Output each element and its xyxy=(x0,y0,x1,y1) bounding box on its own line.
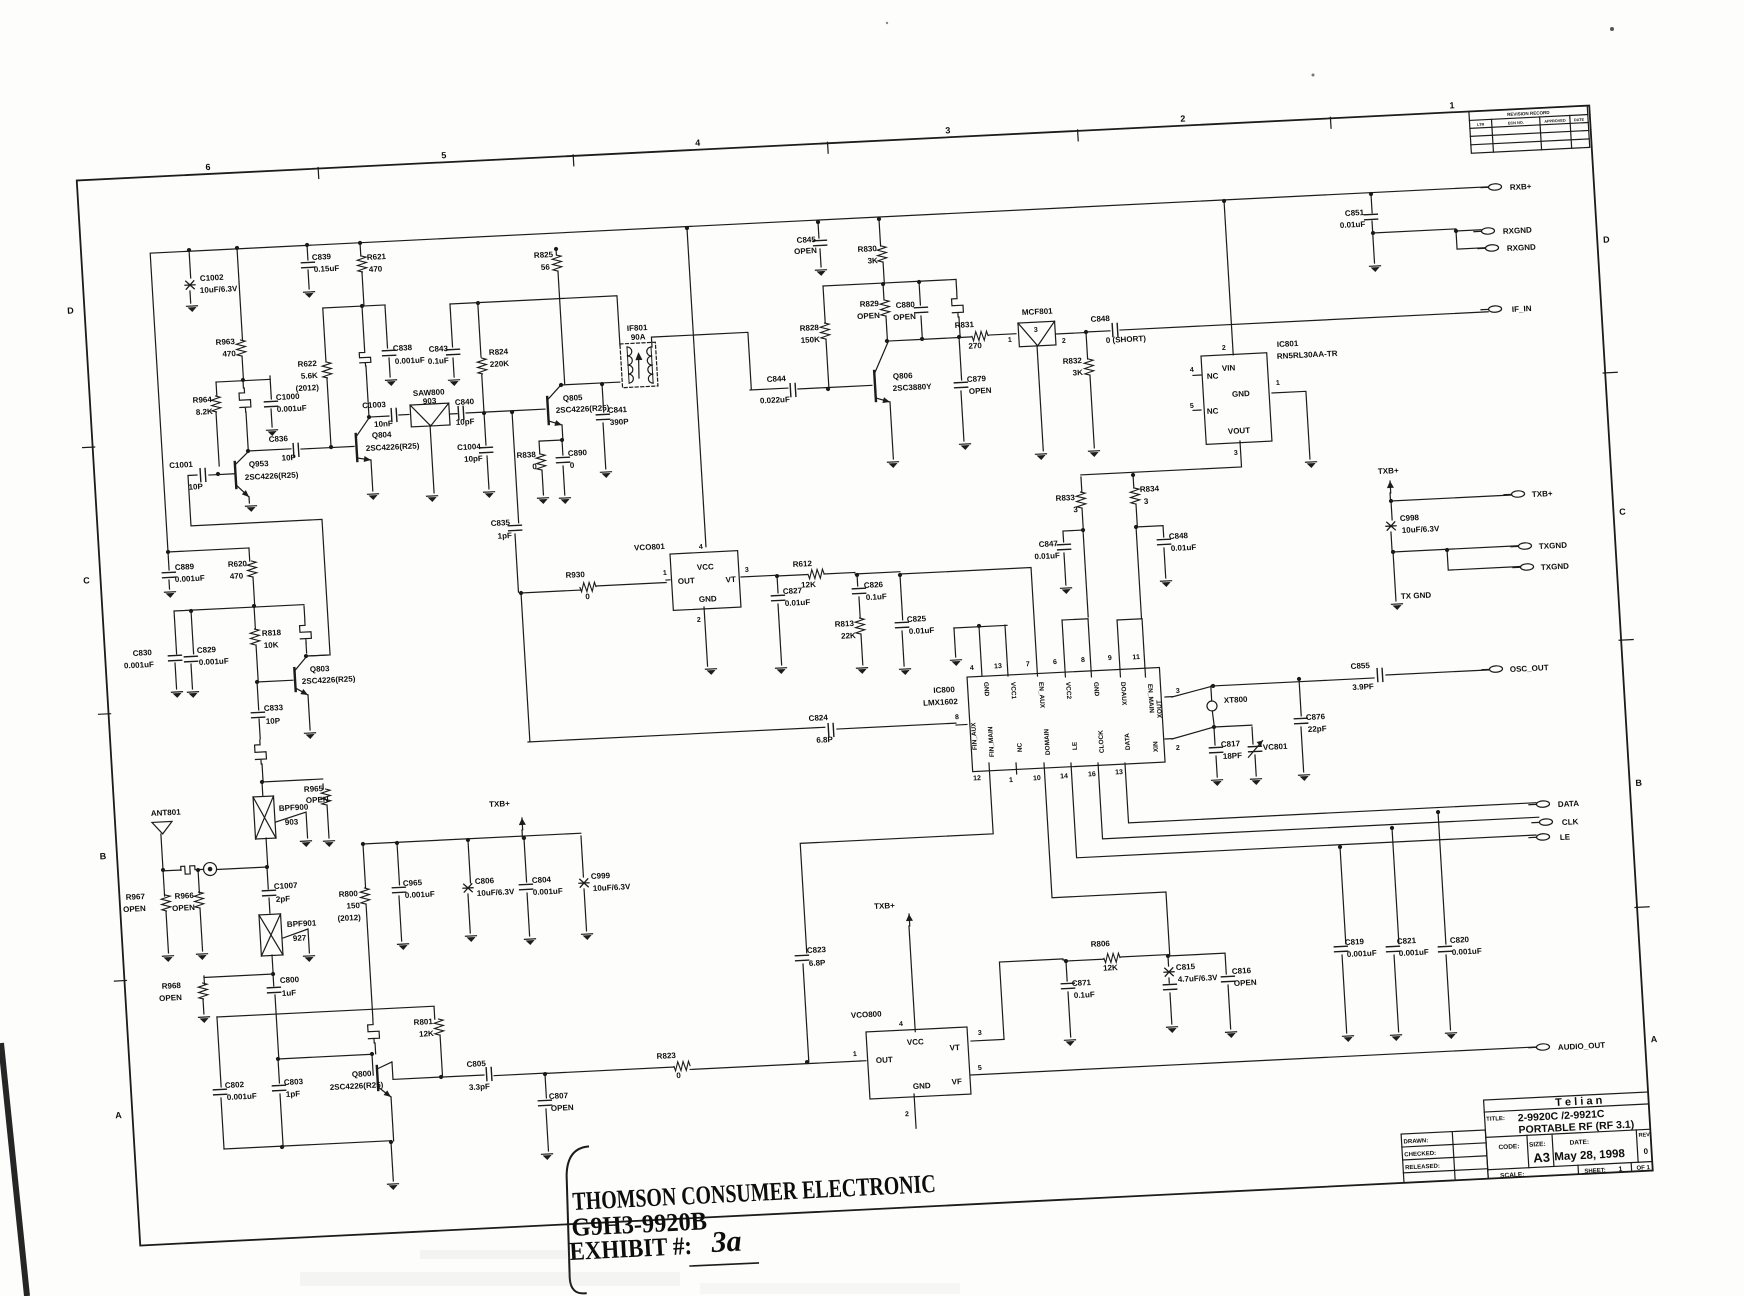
wire Q803 collector node xyxy=(304,654,308,658)
wire LE pin14 to LE terminal xyxy=(1071,740,1536,858)
wire IC801 GND pin to ground xyxy=(1272,391,1310,460)
wire rail to R620 C889 xyxy=(166,550,170,554)
svg-text:2: 2 xyxy=(905,1111,909,1118)
resistor R833 3 xyxy=(1080,477,1083,492)
wire H1 feedback top xyxy=(217,1006,434,1017)
svg-text:C851: C851 xyxy=(1345,208,1365,218)
transistor Q805 2SC4226(R25) xyxy=(547,397,549,424)
svg-text:5.6K: 5.6K xyxy=(301,371,319,381)
svg-text:R838: R838 xyxy=(516,450,536,460)
wire BPF901 to R968 C800 xyxy=(272,955,273,974)
svg-text:Q805: Q805 xyxy=(563,393,584,403)
svg-text:C816: C816 xyxy=(1232,966,1252,976)
svg-text:0.01uF: 0.01uF xyxy=(1340,220,1366,230)
wire RXGND second branch xyxy=(1456,230,1485,249)
wire XOUT to OSC_OUT xyxy=(1172,678,1375,697)
svg-text:OPEN: OPEN xyxy=(1234,978,1257,988)
svg-text:DRAWN:: DRAWN: xyxy=(1403,1138,1428,1145)
svg-text:TXB+: TXB+ xyxy=(489,799,511,809)
capacitor C1004 10pF xyxy=(484,413,486,445)
svg-text:B: B xyxy=(99,851,107,861)
connector AUDIO_OUT xyxy=(1536,1043,1549,1050)
connector CLK xyxy=(1539,819,1552,826)
svg-text:5: 5 xyxy=(441,150,447,160)
svg-text:470: 470 xyxy=(369,264,383,274)
svg-text:C889: C889 xyxy=(175,562,195,572)
svg-text:3a: 3a xyxy=(709,1225,742,1259)
svg-text:10uF/6.3V: 10uF/6.3V xyxy=(200,284,239,295)
svg-text:0.001uF: 0.001uF xyxy=(175,574,206,584)
wire R612 to EN_AUX xyxy=(900,568,1037,683)
svg-text:C803: C803 xyxy=(284,1077,304,1087)
filter BPF900 903 xyxy=(261,782,264,796)
wire Q806 collector node xyxy=(885,339,889,343)
resistor R831 270 xyxy=(972,331,989,341)
svg-text:OPEN: OPEN xyxy=(969,386,992,396)
svg-text:3: 3 xyxy=(978,1030,982,1037)
svg-text:C841: C841 xyxy=(608,405,628,415)
svg-text:R818: R818 xyxy=(262,628,282,638)
capacitor C833 10P xyxy=(257,682,259,710)
svg-text:10uF/6.3V: 10uF/6.3V xyxy=(1402,524,1441,535)
inductor meander collector xyxy=(242,380,244,388)
svg-text:1: 1 xyxy=(1009,777,1013,784)
svg-text:VCC1: VCC1 xyxy=(1009,682,1017,700)
capacitor C805 3.3pF xyxy=(486,1067,492,1080)
capacitor C843 0.1uF xyxy=(450,304,453,347)
svg-text:ECN NO.: ECN NO. xyxy=(1508,121,1524,126)
svg-text:NC: NC xyxy=(1207,371,1219,381)
wire Q803 emitter to ground xyxy=(308,695,310,730)
svg-text:C879: C879 xyxy=(967,374,987,384)
svg-text:1: 1 xyxy=(1449,100,1455,110)
svg-text:6: 6 xyxy=(205,162,211,172)
svg-text:C839: C839 xyxy=(312,252,332,262)
capacitor C803 1pF xyxy=(276,1057,280,1061)
capacitor C848 0.01uF xyxy=(1136,526,1164,539)
IC IC801 RN5RL30AA-TR xyxy=(1201,353,1272,445)
svg-text:OPEN: OPEN xyxy=(794,246,817,256)
resistor R832 3K xyxy=(1086,332,1088,359)
resistor R800 150 (2012) xyxy=(361,842,365,846)
svg-text:SHEET:: SHEET: xyxy=(1584,1168,1606,1175)
capacitor C841 390P xyxy=(602,384,604,412)
wire Q953 collector node xyxy=(246,449,250,453)
wire bottom rail xyxy=(280,1145,284,1149)
svg-text:R966: R966 xyxy=(174,891,194,901)
svg-text:DATE:: DATE: xyxy=(1569,1139,1589,1147)
svg-text:10pF: 10pF xyxy=(456,417,475,427)
wire DOAUX EN_MAIN pin jog xyxy=(1117,619,1142,620)
capacitor C880 OPEN xyxy=(917,280,921,284)
svg-text:C1004: C1004 xyxy=(457,442,482,452)
capacitor C1003 10nF xyxy=(367,415,371,419)
wire R964 C1000 node xyxy=(241,378,245,382)
svg-text:A: A xyxy=(115,1110,123,1120)
svg-text:Q953: Q953 xyxy=(249,459,270,469)
svg-text:GND: GND xyxy=(1232,389,1251,399)
svg-text:C1003: C1003 xyxy=(362,400,387,410)
drawn checked released table xyxy=(1401,1130,1488,1183)
svg-text:C833: C833 xyxy=(264,703,284,713)
svg-text:10P: 10P xyxy=(281,453,296,463)
svg-text:9: 9 xyxy=(1108,655,1112,662)
svg-text:C829: C829 xyxy=(197,645,217,655)
svg-text:3K: 3K xyxy=(867,256,878,265)
svg-text:11: 11 xyxy=(1132,654,1140,661)
svg-text:RXGND: RXGND xyxy=(1507,243,1537,253)
svg-text:12K: 12K xyxy=(801,580,816,590)
svg-text:C821: C821 xyxy=(1397,936,1417,946)
svg-text:R622: R622 xyxy=(297,359,317,369)
svg-text:22K: 22K xyxy=(841,631,856,641)
svg-text:10uF/6.3V: 10uF/6.3V xyxy=(477,887,516,898)
svg-text:VC801: VC801 xyxy=(1263,742,1289,752)
svg-text:C890: C890 xyxy=(568,448,588,458)
wire Q805 emitter node xyxy=(561,425,564,440)
svg-text:470: 470 xyxy=(222,349,236,359)
svg-text:VCC: VCC xyxy=(697,562,715,572)
capacitor C879 OPEN xyxy=(959,337,962,380)
svg-text:903: 903 xyxy=(285,817,299,827)
wire BPF900 to coax node xyxy=(266,838,268,866)
svg-text:2: 2 xyxy=(1062,338,1066,345)
svg-text:(2012): (2012) xyxy=(295,383,319,393)
resistor R828 150K xyxy=(823,286,825,323)
svg-text:VT: VT xyxy=(725,575,736,584)
capacitor C815 4.7uF/6.3V polarized xyxy=(1166,954,1170,958)
svg-text:DATE: DATE xyxy=(1574,118,1585,122)
svg-text:1: 1 xyxy=(1008,337,1012,344)
wire TXGND second xyxy=(1445,548,1449,552)
svg-text:OUT: OUT xyxy=(678,576,696,586)
svg-text:R930: R930 xyxy=(565,570,585,580)
svg-text:1: 1 xyxy=(1618,1166,1622,1173)
svg-text:R828: R828 xyxy=(799,323,819,333)
svg-text:R964: R964 xyxy=(192,395,212,405)
svg-text:VCO801: VCO801 xyxy=(634,542,666,553)
svg-text:TXB+: TXB+ xyxy=(874,901,896,911)
svg-text:2: 2 xyxy=(1176,745,1180,752)
svg-text:3.3pF: 3.3pF xyxy=(469,1082,491,1092)
svg-text:REV:: REV: xyxy=(1638,1132,1651,1139)
inductor L bias meander xyxy=(303,606,306,620)
svg-text:TITLE:: TITLE: xyxy=(1486,1116,1505,1123)
wire IC801 VOUT to R833 R834 xyxy=(1079,441,1241,475)
power TXB+ arrow mid xyxy=(522,836,526,840)
svg-text:(2012): (2012) xyxy=(337,913,361,923)
wire VCC riser to VCO801 xyxy=(685,226,689,230)
svg-text:R620: R620 xyxy=(228,559,248,569)
svg-text:LTR: LTR xyxy=(1477,123,1485,127)
wire VCC2 GND pin jog xyxy=(1062,619,1088,620)
svg-text:C836: C836 xyxy=(268,434,288,444)
svg-text:7: 7 xyxy=(1026,661,1030,668)
svg-text:C838: C838 xyxy=(393,343,413,353)
svg-text:A: A xyxy=(1650,1034,1658,1044)
svg-text:OPEN: OPEN xyxy=(306,795,329,805)
svg-text:16: 16 xyxy=(1088,771,1096,778)
svg-text:OPEN: OPEN xyxy=(123,904,146,914)
svg-text:C847: C847 xyxy=(1038,539,1058,549)
filter SAW800 903 xyxy=(410,403,450,427)
resistor R825 56 xyxy=(554,247,558,251)
svg-text:3: 3 xyxy=(1034,327,1038,334)
wire FIN_AUX pin8 stub xyxy=(956,723,967,726)
resistor R818 10K xyxy=(254,606,255,629)
svg-text:CLOCK: CLOCK xyxy=(1098,730,1106,754)
svg-text:XOUT: XOUT xyxy=(1156,700,1164,718)
svg-text:C: C xyxy=(83,575,91,585)
svg-text:OSC_OUT: OSC_OUT xyxy=(1510,663,1549,674)
svg-text:IC800: IC800 xyxy=(933,685,955,695)
capacitor C844 0.022uF xyxy=(750,388,788,390)
capacitor C820 0.001uF xyxy=(1436,810,1440,814)
svg-text:56: 56 xyxy=(541,263,551,272)
revision record table xyxy=(1469,106,1590,154)
svg-text:4: 4 xyxy=(699,544,703,551)
svg-text:0.01uF: 0.01uF xyxy=(1171,543,1197,553)
wire TXB+ rail xyxy=(363,833,581,844)
svg-text:R829: R829 xyxy=(859,299,879,309)
filter BPF901 927 xyxy=(259,914,283,956)
capacitor C1002 polarized xyxy=(187,248,191,252)
capacitor C816 OPEN xyxy=(1168,953,1226,977)
svg-text:EXHIBIT #:: EXHIBIT #: xyxy=(569,1231,693,1266)
left zone ticks xyxy=(83,446,95,449)
IC IC800 LMX1602 xyxy=(967,667,1165,771)
svg-text:VOUT: VOUT xyxy=(1228,426,1251,436)
svg-text:R800: R800 xyxy=(338,889,358,899)
connector OSC_OUT xyxy=(1489,666,1502,673)
svg-text:ANT801: ANT801 xyxy=(151,808,182,818)
wire XIN node xyxy=(1171,725,1252,739)
svg-text:22pF: 22pF xyxy=(1308,724,1327,734)
svg-text:D: D xyxy=(1603,234,1611,244)
svg-text:GND: GND xyxy=(1092,682,1100,697)
capacitor C830 xyxy=(174,611,177,654)
svg-text:0.01uF: 0.01uF xyxy=(785,598,811,608)
filter MCF801 xyxy=(1018,321,1056,347)
svg-text:2pF: 2pF xyxy=(276,894,291,904)
inductor meander below C833 xyxy=(259,719,260,739)
svg-text:MCF801: MCF801 xyxy=(1022,307,1054,318)
svg-text:12K: 12K xyxy=(419,1029,434,1039)
svg-text:OPEN: OPEN xyxy=(159,993,182,1003)
svg-text:BPF901: BPF901 xyxy=(287,919,318,929)
svg-text:4: 4 xyxy=(695,138,701,148)
svg-text:OPEN: OPEN xyxy=(172,903,195,913)
wire Q800 emitter ground xyxy=(391,1097,394,1141)
svg-text:927: 927 xyxy=(293,933,307,943)
svg-text:3: 3 xyxy=(1176,688,1180,695)
svg-text:C819: C819 xyxy=(1345,937,1365,947)
capacitor C845 OPEN xyxy=(816,220,820,224)
wire DATA pin13 to DATA terminal xyxy=(1125,743,1536,823)
resistor R838 0 xyxy=(536,454,546,470)
wire coax link xyxy=(217,867,267,869)
svg-text:18PF: 18PF xyxy=(1223,751,1243,761)
wire C843 R824 IF801 node xyxy=(450,296,620,354)
resistor R930 0 xyxy=(521,590,580,593)
svg-text:R806: R806 xyxy=(1090,939,1110,949)
resistor R612 12K xyxy=(775,574,779,578)
crystal XT800 xyxy=(1211,684,1215,688)
capacitor C838 0.001uF xyxy=(385,305,388,348)
svg-text:C823: C823 xyxy=(807,945,827,955)
svg-text:GND: GND xyxy=(982,682,990,697)
transistor Q953 2SC4226(R25) xyxy=(209,474,234,475)
capacitor C890 0 xyxy=(561,440,564,455)
svg-text:C802: C802 xyxy=(225,1080,245,1090)
capacitor C835 1pF xyxy=(510,410,514,414)
capacitor C871 0.1uF xyxy=(1064,959,1068,963)
svg-text:R823: R823 xyxy=(656,1051,676,1061)
svg-text:2: 2 xyxy=(1222,345,1226,352)
svg-text:RXGND: RXGND xyxy=(1503,226,1533,236)
svg-text:4: 4 xyxy=(899,1021,903,1028)
wire H2 base link xyxy=(278,1054,372,1059)
svg-text:1: 1 xyxy=(1276,380,1280,387)
svg-text:C1000: C1000 xyxy=(276,392,301,402)
connector RXGND xyxy=(1481,228,1494,235)
resistor R968 OPEN xyxy=(203,976,205,984)
connector TXGND 2 xyxy=(1520,563,1533,570)
svg-text:C965: C965 xyxy=(403,878,423,888)
wire IF801 secondary to C844 xyxy=(651,332,751,394)
capacitor C817 18PF xyxy=(1214,727,1215,745)
inductor meander Q804 collector xyxy=(362,306,365,348)
svg-text:R813: R813 xyxy=(834,619,854,629)
svg-text:C998: C998 xyxy=(1400,513,1420,523)
capacitor C824 6.8P xyxy=(528,727,825,742)
svg-text:1pF: 1pF xyxy=(497,531,512,541)
svg-text:0.001uF: 0.001uF xyxy=(227,1092,258,1102)
svg-text:C827: C827 xyxy=(783,586,803,596)
svg-text:C824: C824 xyxy=(808,713,828,723)
wire CLOCK pin16 to CLK terminal xyxy=(1098,741,1539,839)
svg-text:C806: C806 xyxy=(475,876,495,886)
svg-text:GND: GND xyxy=(699,594,718,604)
svg-text:4: 4 xyxy=(970,665,974,672)
wire C835 to FIN_AUX xyxy=(519,591,523,595)
title block Telian xyxy=(1484,1092,1653,1179)
svg-text:10: 10 xyxy=(1033,775,1041,782)
svg-text:C843: C843 xyxy=(428,344,448,354)
svg-text:1uF: 1uF xyxy=(282,988,297,998)
capacitor C999 10uF/6.3V polarized xyxy=(581,836,583,877)
wire TX GND ground xyxy=(1393,552,1396,601)
capacitor C821 0.001uF xyxy=(1390,826,1394,830)
svg-text:10uF/6.3V: 10uF/6.3V xyxy=(593,882,632,893)
wire IC801 VIN riser xyxy=(1222,199,1226,203)
wire Q806 emitter ground xyxy=(890,402,893,459)
transformer IF801 90A xyxy=(620,342,658,388)
svg-text:C855: C855 xyxy=(1350,661,1370,671)
capacitor C826 0.1uF + resistor R813 22K xyxy=(855,573,859,577)
connector TXB+ xyxy=(1511,491,1524,498)
svg-text:1: 1 xyxy=(853,1051,857,1058)
svg-text:1pF: 1pF xyxy=(286,1089,301,1099)
svg-text:XIN: XIN xyxy=(1152,741,1160,752)
svg-text:12K: 12K xyxy=(1103,963,1118,973)
svg-text:0.01uF: 0.01uF xyxy=(909,626,935,636)
svg-text:R801: R801 xyxy=(413,1017,433,1027)
svg-text:R825: R825 xyxy=(534,250,554,260)
capacitor C823 6.8P xyxy=(795,955,808,961)
svg-text:OPEN: OPEN xyxy=(893,312,916,322)
wire VCO800 pin2 GND xyxy=(914,1094,916,1128)
svg-text:B: B xyxy=(1635,778,1643,788)
svg-text:VCO800: VCO800 xyxy=(851,1009,883,1020)
varactor VC801 xyxy=(1252,727,1253,744)
svg-text:12: 12 xyxy=(973,775,981,782)
svg-text:OPEN: OPEN xyxy=(857,311,880,321)
svg-text:8: 8 xyxy=(1081,657,1085,664)
wire TXB+ node xyxy=(1389,493,1391,501)
antenna ANT801 xyxy=(161,868,165,872)
scanner page edge shadow bottom-left xyxy=(1,1043,27,1296)
wire Q805 collector to IF801 xyxy=(560,382,620,386)
inductor meander Q806 xyxy=(955,280,958,293)
resistor R963 470 xyxy=(235,246,239,250)
wire BPF900 top node xyxy=(260,780,264,784)
svg-text:R968: R968 xyxy=(161,981,181,991)
svg-text:Q804: Q804 xyxy=(372,430,393,440)
wire VCO800 pin3 VT xyxy=(971,1039,1004,1041)
svg-text:10K: 10K xyxy=(264,640,279,650)
svg-text:470: 470 xyxy=(230,571,244,581)
svg-text:XT800: XT800 xyxy=(1224,695,1249,705)
resistor R806 12K xyxy=(1066,959,1104,961)
capacitor C876 22pF xyxy=(1297,677,1301,681)
svg-text:5: 5 xyxy=(1190,403,1194,410)
svg-text:C804: C804 xyxy=(532,875,552,885)
connector RXGND 2 xyxy=(1485,244,1498,251)
svg-text:IC801: IC801 xyxy=(1277,339,1299,349)
svg-text:GND: GND xyxy=(913,1081,932,1091)
svg-text:14: 14 xyxy=(1060,773,1068,780)
svg-text:0.1uF: 0.1uF xyxy=(428,356,450,366)
svg-text:903: 903 xyxy=(423,396,437,406)
svg-text:NC: NC xyxy=(1207,406,1219,416)
transistor Q800 2SC4226(R25) xyxy=(372,1054,373,1075)
svg-text:C999: C999 xyxy=(591,871,611,881)
capacitor C1007 2pF xyxy=(267,867,268,889)
svg-text:0.001uF: 0.001uF xyxy=(1347,949,1378,959)
wire MCF801 ground xyxy=(1037,345,1043,451)
wire VCO801 GND pin2 xyxy=(704,607,708,666)
svg-text:270: 270 xyxy=(968,341,982,351)
svg-text:C840: C840 xyxy=(455,397,475,407)
resistor R830 3K xyxy=(877,217,881,221)
svg-text:3: 3 xyxy=(945,125,951,135)
svg-text:RXB+: RXB+ xyxy=(1510,182,1532,192)
resistor R965 OPEN xyxy=(322,784,324,789)
coax connector xyxy=(203,862,217,876)
svg-text:13: 13 xyxy=(994,663,1002,670)
svg-text:3K: 3K xyxy=(1072,368,1083,377)
svg-text:10P: 10P xyxy=(266,716,281,726)
svg-text:C1002: C1002 xyxy=(200,273,225,283)
VCO VCO800 xyxy=(866,1027,971,1099)
svg-text:6: 6 xyxy=(1053,659,1057,666)
svg-text:3: 3 xyxy=(1234,450,1238,457)
svg-text:8: 8 xyxy=(955,714,959,721)
svg-text:C807: C807 xyxy=(549,1091,569,1101)
resistor R620 470 xyxy=(248,548,251,561)
svg-text:150: 150 xyxy=(346,901,360,911)
